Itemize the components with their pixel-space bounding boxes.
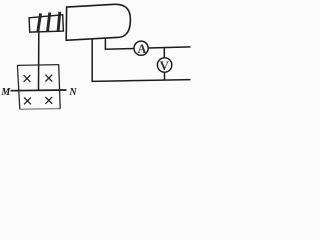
coil winding stroke 1 [38, 13, 41, 31]
field box right edge [59, 64, 61, 108]
wire: voltmeter top stub [163, 48, 165, 59]
coil (hatched end of battery) [29, 15, 63, 32]
svg-text:M: M [0, 87, 11, 98]
svg-text:A: A [137, 42, 146, 56]
wire from coil down to rod MN [38, 32, 40, 90]
wire: ammeter to right edge [148, 47, 190, 48]
flux X bottom-left [24, 97, 31, 104]
flux X bottom-right [45, 97, 52, 104]
flux X top-right [45, 75, 52, 82]
svg-text:V: V [160, 59, 170, 73]
coil winding stroke 3 [58, 12, 60, 32]
svg-text:N: N [68, 87, 77, 98]
coil winding stroke 2 [48, 13, 50, 32]
ammeter A circle [134, 41, 148, 55]
circuit schematic: battery with coil, field box MN, ammeter A, voltmeter V [0, 0, 192, 114]
wire: battery right terminal down to ammeter [105, 39, 134, 49]
wire: battery left terminal down and along bottom to right edge [92, 39, 190, 81]
wire: voltmeter bottom stub [164, 72, 166, 80]
field box bottom edge [20, 108, 60, 111]
rod M-N through box [11, 89, 67, 92]
field box top edge [17, 64, 59, 67]
field box left edge [17, 65, 19, 109]
voltmeter V circle [157, 58, 171, 72]
battery body (rounded right cap) [66, 4, 130, 40]
flux X top-left [24, 75, 31, 82]
